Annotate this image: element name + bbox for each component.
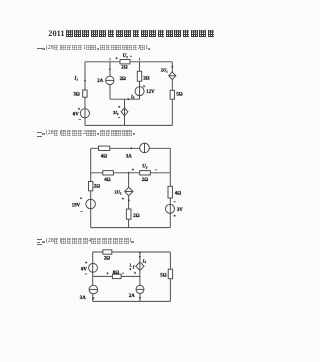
resistor 2ohm top c1: [120, 60, 130, 64]
resistor 5ohm right c3: [168, 269, 172, 279]
svg-text:8Ω: 8Ω: [113, 271, 119, 276]
question 2: 二、(28 分)电路如图 2 所示，求受控源发出的功率。: [37, 130, 137, 148]
svg-text:5Ω: 5Ω: [160, 273, 166, 278]
svg-text:4Ω: 4Ω: [104, 178, 110, 183]
svg-text:5Ω: 5Ω: [176, 93, 182, 98]
svg-text:6V: 6V: [73, 112, 79, 117]
svg-text:2Ω: 2Ω: [133, 214, 139, 219]
label U1 +: [116, 57, 118, 59]
resistor 2ohm second c2: [140, 171, 151, 175]
node dot middle c1: [127, 98, 129, 100]
svg-text:4Ω: 4Ω: [101, 155, 107, 160]
dependent source 2U2 (VCCS diamond) c2: [125, 187, 133, 195]
svg-text:2Ω: 2Ω: [142, 178, 148, 183]
wire 12V branch c1: [139, 62, 141, 99]
current source 3A c3: [89, 285, 98, 294]
arrow below 2U2: [128, 200, 130, 203]
svg-text:2: 2: [130, 267, 132, 271]
wire middle column c3: [139, 252, 141, 301]
wire right column c3: [169, 252, 171, 301]
label U2 + -: [132, 169, 134, 171]
resistor 5ohm c1: [170, 90, 174, 99]
resistor 2ohm vertical c1: [137, 71, 141, 81]
svg-text:3I2: 3I2: [113, 110, 119, 116]
voltage source 3V c2: [166, 204, 175, 213]
wire middle rail c3: [93, 275, 140, 277]
question 1: 一、(28 分)电路如图1所示，用结点电压法求电流I1和I2。: [37, 45, 151, 63]
svg-text:3V: 3V: [177, 208, 183, 213]
resistor 4ohm right c2: [168, 186, 172, 198]
svg-text:2U1: 2U1: [161, 68, 168, 74]
svg-text:4Ω: 4Ω: [175, 192, 181, 197]
svg-text:2A: 2A: [97, 79, 103, 84]
resistor 2ohm top c3: [103, 250, 112, 254]
wire right column c2: [169, 148, 171, 227]
label + below diamond c3: [134, 272, 136, 274]
svg-text:I1: I1: [74, 77, 79, 82]
wire 3I2 branch c1: [124, 99, 126, 125]
svg-text:3A: 3A: [80, 296, 86, 301]
arrow I down c3: [139, 256, 141, 259]
wire left column c1: [84, 62, 86, 126]
svg-text:1: 1: [130, 263, 132, 267]
svg-text:3Ω: 3Ω: [74, 93, 80, 98]
svg-text:U1: U1: [123, 54, 128, 59]
dependent source 1/2 I (diamond) c3: [136, 262, 144, 270]
svg-text:2Ω: 2Ω: [121, 65, 127, 70]
svg-text:I4: I4: [142, 258, 147, 264]
svg-text:6V: 6V: [81, 267, 87, 272]
node dot second rail c2: [128, 172, 130, 174]
wire top rail c3: [93, 251, 171, 253]
node dot above 2U1: [171, 66, 173, 68]
svg-text:2Ω: 2Ω: [104, 257, 110, 262]
node dot top rail c3: [139, 251, 141, 253]
wire bottom rail c1: [85, 124, 172, 126]
svg-text:I: I: [132, 265, 135, 270]
svg-text:2Ω: 2Ω: [143, 77, 149, 82]
current source 2A c3: [136, 285, 144, 293]
resistor 3ohm R-left c1: [83, 90, 87, 97]
voltage source 19V c2: [86, 199, 96, 209]
question 3: 三、(28 分)用叠加定理求图 4 所示电路中的电流 I。: [37, 238, 135, 256]
tick above rail at 2A branch: [109, 58, 111, 61]
wire left column c3: [92, 252, 94, 301]
wire bottom rail c2: [91, 227, 171, 229]
resistor 2ohm middle c2: [126, 209, 131, 219]
wire second rail c2: [91, 172, 171, 174]
wire 2A branch c1: [109, 62, 111, 77]
svg-text:19V: 19V: [72, 203, 81, 208]
wire middle c1: [110, 98, 140, 100]
wire right column c1: [171, 62, 173, 126]
node I1 arrow: [84, 77, 86, 83]
voltage source 6V c1: [80, 109, 89, 118]
svg-text:U2: U2: [142, 165, 147, 170]
svg-text:3A: 3A: [126, 155, 132, 160]
resistor 4ohm second c2: [103, 171, 114, 175]
current source 3A c2: [140, 143, 150, 153]
wire left column c2: [90, 148, 92, 227]
resistor 8ohm middle c3: [112, 274, 121, 278]
wire top rail c1: [85, 61, 172, 63]
wire top rail c2: [91, 147, 171, 149]
svg-text:2U2: 2U2: [115, 190, 122, 196]
svg-text:12V: 12V: [146, 90, 155, 95]
voltage source 12V c1: [135, 87, 144, 96]
wire 2U2 branch c2: [128, 173, 130, 228]
dependent source 2U1 (VCCS diamond) c1: [169, 72, 176, 80]
arrow 3A on rail: [129, 147, 132, 149]
wire bottom rail c3: [93, 300, 171, 302]
resistor 4ohm top c2: [99, 146, 110, 150]
title: 2011 年上海理工大学硕士研究生入学考试试题: [48, 30, 216, 48]
svg-text:2Ω: 2Ω: [94, 184, 100, 189]
svg-text:2Ω: 2Ω: [120, 77, 126, 82]
tick above rail at 12V branch: [139, 58, 141, 61]
resistor 2ohm left c2: [89, 182, 93, 191]
voltage source 6V c3: [89, 263, 98, 272]
current source 2A c1: [106, 76, 114, 84]
svg-text:2A: 2A: [129, 294, 135, 299]
dependent source 3I2 (CCVS diamond) c1: [121, 108, 128, 116]
